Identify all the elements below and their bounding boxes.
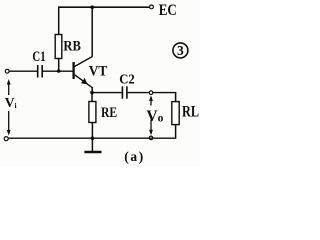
svg-text:3: 3 [177, 43, 184, 58]
terminal output top [149, 91, 153, 95]
terminal EC [150, 5, 154, 9]
junction emitter node [90, 91, 94, 95]
resistor RE [89, 102, 96, 123]
terminal output bottom [149, 136, 153, 140]
wire RL top lead [175, 93, 177, 102]
wire RE top lead [91, 93, 93, 102]
wire emitter to C2 [92, 92, 122, 94]
svg-text:RL: RL [182, 104, 199, 121]
wire C1 to base [43, 70, 73, 72]
capacitor C2 [121, 86, 123, 98]
wire C2 to output node [128, 92, 150, 94]
wire bottom rail [8, 137, 175, 139]
svg-text:EC: EC [159, 2, 177, 19]
node Vo arrows [149, 95, 153, 135]
wire output node to RL [153, 92, 177, 94]
junction base node [57, 69, 61, 73]
svg-text:C1: C1 [32, 49, 45, 65]
svg-text:VT: VT [89, 64, 108, 80]
capacitor C1 [37, 65, 39, 78]
svg-text:RE: RE [101, 105, 117, 121]
wire RE bottom lead [91, 123, 93, 139]
transistor VT [74, 57, 93, 88]
wire RB branch vertical from rail [58, 6, 60, 34]
junction collector-rail [90, 5, 94, 9]
wire RL bottom lead [175, 125, 177, 139]
junction ground node [91, 136, 95, 140]
svg-text:C2: C2 [119, 73, 135, 88]
wire RB to base [58, 59, 60, 72]
wire collector to rail [91, 7, 93, 57]
svg-text:RB: RB [63, 39, 81, 55]
terminal input [5, 69, 9, 73]
ground [84, 138, 101, 152]
resistor RB [55, 35, 62, 59]
node Vi arrows [7, 79, 11, 136]
terminal input bottom [4, 137, 8, 141]
node circled 3 [173, 43, 188, 58]
wire input to C1 [9, 70, 37, 72]
wire emitter down [91, 87, 93, 93]
svg-text:(a): (a) [124, 149, 143, 164]
resistor RL [172, 102, 179, 125]
wire top supply rail [59, 6, 150, 8]
